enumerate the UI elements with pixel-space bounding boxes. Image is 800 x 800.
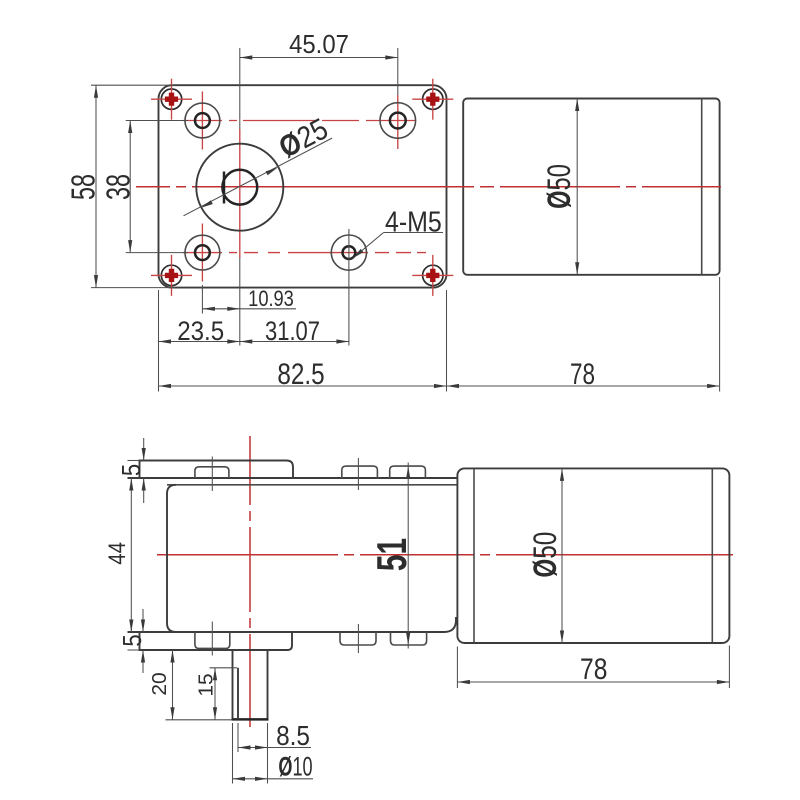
bottom tab A [195, 632, 230, 648]
bottom cover plate (side view) [140, 632, 293, 650]
svg-text:5: 5 [118, 634, 147, 646]
svg-text:45.07: 45.07 [289, 30, 349, 59]
red vertical centerline through upper right hole [397, 95, 399, 149]
svg-text:10.93: 10.93 [248, 288, 294, 312]
red vertical centerline through gear circle [239, 129, 241, 258]
svg-text:23.5: 23.5 [177, 317, 224, 346]
motor end cap line (side view) [711, 469, 713, 643]
red vertical centerlines through small holes left column [201, 92, 203, 150]
svg-text:31.07: 31.07 [265, 317, 320, 346]
dimension 44 [130, 478, 132, 632]
output shaft (side view) [232, 650, 234, 719]
svg-text:Ø10: Ø10 [278, 751, 312, 782]
corner screw at (432.8,99.2) [412, 79, 453, 120]
dimension Ø10 [232, 723, 234, 784]
svg-text:82.5: 82.5 [277, 357, 324, 391]
svg-text:Ø50: Ø50 [528, 532, 564, 578]
dimension 45.07 (top) [239, 48, 241, 129]
dimension 15 [210, 667, 238, 669]
corner screw at (171.5,275.4) [151, 255, 192, 296]
black centerline through M5 hole [348, 229, 350, 346]
tab centerlines [211, 457, 213, 492]
corner screw at (432.8,275.4) [412, 255, 453, 296]
bottom tab B [340, 632, 376, 645]
mounting hole upper-right [380, 103, 416, 139]
dimension 78 (top view) [719, 277, 721, 392]
motor flange line (side view) [473, 469, 475, 643]
top tab A [195, 467, 229, 478]
gear wheel circle (Ø25 ref) [196, 144, 283, 231]
motor body outline (top view) [463, 99, 719, 275]
svg-text:4-M5: 4-M5 [385, 206, 442, 238]
motor end cap line (top view) [701, 99, 703, 275]
dimension 38 (left inner) [126, 120, 188, 122]
svg-text:78: 78 [580, 652, 607, 686]
red centerline row through lower holes [183, 252, 426, 254]
top tab B [342, 466, 378, 479]
leader and label Ø25 [184, 138, 333, 216]
gearbox body left edge with fillets (side view) [167, 485, 176, 632]
dimension 10.93 [201, 285, 203, 314]
top tab C [390, 466, 426, 479]
svg-text:8.5: 8.5 [276, 719, 310, 751]
dimension Ø50 (top view) [576, 99, 578, 275]
gearbox housing outline (top view) [159, 85, 447, 287]
red vertical centerline (side view) [249, 436, 251, 727]
leader and label 4-M5 [353, 233, 384, 259]
dimension 51 [407, 463, 409, 649]
bottom tab C [391, 632, 427, 645]
top cover plate (side view) [140, 461, 294, 479]
dimension 5 (top plate) [128, 460, 140, 462]
dimension 5 (bottom plate) [128, 649, 140, 651]
svg-text:44: 44 [103, 542, 130, 565]
gearbox body bottom edge (side view) [128, 617, 457, 632]
motor body (side view) [457, 468, 729, 643]
red centerline row through upper holes [183, 120, 416, 122]
svg-text:Ø50: Ø50 [542, 164, 577, 209]
svg-text:15: 15 [195, 673, 217, 696]
red main horizontal centerline (top view) [136, 186, 721, 188]
svg-text:5: 5 [117, 464, 146, 476]
mounting hole lower-left [185, 235, 220, 270]
dimension Ø50 (side view) [561, 468, 563, 643]
mounting hole upper-left [185, 103, 220, 138]
svg-text:20: 20 [148, 672, 170, 695]
svg-text:51: 51 [368, 538, 415, 571]
svg-text:58: 58 [66, 174, 103, 200]
svg-text:78: 78 [570, 357, 595, 391]
dimension 82.5 [446, 290, 448, 392]
dimension 78 (side view) [456, 647, 458, 689]
svg-text:38: 38 [101, 174, 138, 200]
shaft D-flat line [237, 668, 239, 720]
dimension 20 [166, 719, 233, 721]
corner screw at (171.5,99.2) [151, 79, 192, 120]
M5 tapped hole lower-right [331, 235, 366, 270]
dimension 58 (left) [91, 84, 175, 86]
dimension 31.07 [240, 341, 349, 343]
red horizontal centerline (side view) [157, 554, 733, 556]
dimension 23.5 [158, 290, 160, 392]
dimension 8.5 [237, 723, 239, 752]
output shaft hole circle with D-flat [222, 170, 257, 205]
gearbox top face lines [128, 477, 458, 479]
